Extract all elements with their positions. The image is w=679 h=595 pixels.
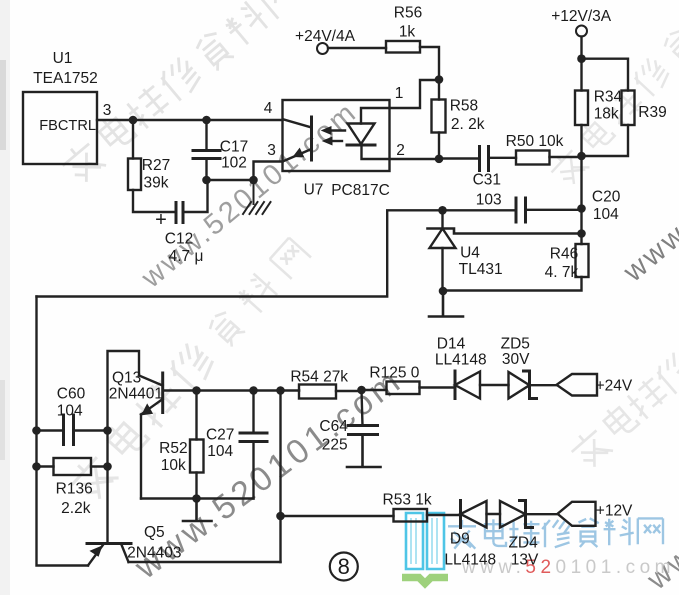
- svg-text:U7: U7: [304, 182, 324, 199]
- wire C20 line left: [443, 209, 517, 211]
- resistor R34: [575, 91, 588, 126]
- svg-text:2N4403: 2N4403: [127, 545, 181, 562]
- svg-text:PC817C: PC817C: [331, 182, 390, 199]
- resistor R56: [386, 41, 420, 53]
- capacitor C27: [240, 433, 267, 442]
- wire ZD4 to tag: [526, 513, 558, 515]
- wire C27 top: [252, 391, 254, 434]
- svg-text:8: 8: [338, 554, 350, 579]
- wire R27 top: [132, 120, 134, 159]
- svg-text:LL4148: LL4148: [444, 552, 496, 569]
- logo text 家电维修资料网: [448, 517, 663, 548]
- svg-text:3: 3: [267, 142, 276, 159]
- resistor R50: [516, 151, 550, 165]
- wire R52 bottom: [195, 473, 197, 499]
- node C17 bottom junction: [202, 176, 211, 185]
- svg-text:R56: R56: [394, 5, 422, 22]
- capacitor C64: [349, 426, 378, 435]
- node pin1 junction: [435, 75, 444, 84]
- node mid vertical top: [276, 386, 285, 395]
- wire ZD5 to tag: [530, 384, 557, 386]
- svg-text:FBCTRL: FBCTRL: [39, 118, 96, 134]
- wire +12V output row: [281, 515, 394, 517]
- resistor R54: [299, 385, 336, 399]
- svg-text:2: 2: [396, 142, 405, 159]
- resistor R52: [190, 440, 204, 473]
- wire C27 bottom: [252, 442, 254, 499]
- node R52 bottom: [192, 494, 201, 503]
- svg-text:D9: D9: [450, 531, 470, 548]
- wire R136 row left: [37, 465, 54, 467]
- wire D14 to ZD5: [480, 384, 509, 386]
- svg-text:18k: 18k: [594, 106, 619, 123]
- svg-text:TL431: TL431: [459, 261, 503, 278]
- node C17 top junction: [202, 116, 211, 125]
- node TL431 top junction: [438, 206, 447, 215]
- svg-text:2N4401: 2N4401: [109, 386, 163, 403]
- svg-text:104: 104: [207, 443, 233, 460]
- watermark www.520101.com center-left diagonal: [135, 96, 364, 295]
- svg-text:4.7 μ: 4.7 μ: [169, 248, 204, 265]
- svg-text:R52: R52: [159, 440, 187, 457]
- wire R53 to D9: [427, 514, 461, 516]
- capacitor C20: [516, 198, 526, 222]
- logo book icon: [402, 513, 448, 584]
- capacitor C60: [64, 415, 74, 445]
- svg-text:ZD4: ZD4: [508, 535, 538, 552]
- svg-text:TEA1752: TEA1752: [33, 70, 98, 87]
- svg-text:C27: C27: [206, 427, 234, 444]
- node +12V top junction: [577, 54, 586, 63]
- capacitor C12: [176, 203, 183, 223]
- node R50 rail junction: [577, 152, 586, 161]
- svg-text:39k: 39k: [144, 175, 169, 192]
- op-amp U1 TEA1752 box: [23, 92, 97, 164]
- node C60 left: [32, 426, 41, 435]
- svg-text:LL4148: LL4148: [435, 352, 487, 369]
- svg-text:C17: C17: [220, 139, 248, 156]
- node C20 rail junction: [577, 204, 586, 213]
- wire R52 top: [195, 391, 197, 440]
- resistor R46: [576, 244, 589, 277]
- wire left rail: [37, 297, 89, 566]
- svg-text:4. 7k: 4. 7k: [545, 264, 579, 281]
- diode D9 LL4148: [459, 501, 462, 528]
- watermark 家电维修资料网 upper-left diagonal: [57, 0, 303, 187]
- watermark www bottom-right edge: [617, 162, 679, 289]
- wire ground row R52 C27: [141, 497, 254, 499]
- svg-text:102: 102: [221, 155, 247, 172]
- terminal +24V tag: [557, 374, 598, 396]
- svg-text:C64: C64: [319, 418, 348, 435]
- diode ZD4 13V: [500, 501, 526, 528]
- wire +12V rail upper: [580, 37, 582, 91]
- wire node to R125: [362, 389, 387, 391]
- wire mid rail Q13 collector to Q5 base: [108, 351, 140, 544]
- wire R39 branch top: [582, 59, 629, 91]
- wire C60 row left: [37, 429, 64, 431]
- wire R125 to D14: [420, 386, 456, 388]
- ground R52: [183, 499, 212, 522]
- wire TL431 link to left rail: [37, 210, 443, 296]
- diode D14 LL4148: [454, 371, 457, 399]
- svg-text:Q13: Q13: [112, 370, 141, 387]
- wire C17 bottom: [205, 159, 207, 181]
- watermark 家电维修资料网 lower-left diagonal: [65, 234, 315, 505]
- ground C64: [347, 435, 381, 468]
- transistor Q13 2N4401: [139, 376, 163, 386]
- wire C17 top: [205, 120, 207, 151]
- svg-text:C12: C12: [165, 231, 193, 248]
- watermark www.520101.com bottom-center diagonal: [127, 361, 410, 587]
- capacitor C31: [480, 147, 489, 171]
- wire R56 to R58 rail: [420, 47, 439, 100]
- wire Q13 base row: [163, 389, 299, 391]
- wire C20 right: [526, 209, 582, 211]
- svg-text:D14: D14: [437, 336, 466, 353]
- node R136 right: [103, 462, 112, 471]
- wire C31 to R50: [489, 157, 517, 159]
- svg-text:R136: R136: [56, 481, 93, 498]
- svg-text:+24V/4A: +24V/4A: [295, 28, 356, 45]
- wire node up to U7 pin3: [254, 162, 283, 181]
- svg-text:C20: C20: [592, 189, 621, 206]
- transistor U4 TL431: [441, 210, 443, 228]
- svg-text:103: 103: [476, 192, 502, 209]
- node +12V row junction: [276, 512, 285, 521]
- diode ZD5 30V: [509, 372, 530, 399]
- svg-text:+24V: +24V: [596, 378, 633, 395]
- svg-text:10k: 10k: [161, 457, 186, 474]
- node TL431 bottom junction: [439, 287, 448, 296]
- wire U7 pin1: [361, 80, 439, 124]
- wire C60 right: [74, 429, 108, 431]
- node C27 top: [249, 386, 258, 395]
- wire R54 to node: [336, 390, 362, 392]
- wire Q13 emitter down: [140, 415, 142, 499]
- wire D9 to ZD4: [487, 513, 501, 515]
- svg-text:R54 27k: R54 27k: [290, 369, 348, 386]
- svg-text:U1: U1: [53, 50, 73, 67]
- svg-text:+12V: +12V: [596, 503, 633, 520]
- transistor Q5 2N4403: [87, 542, 131, 545]
- node pin2 junction: [435, 155, 444, 164]
- wire Q5 collector row: [129, 561, 281, 563]
- node C60 right: [103, 426, 112, 435]
- resistor R58: [432, 100, 446, 133]
- wire mid vertical to Q5 collector: [279, 391, 281, 563]
- transistor U7 phototransistor: [310, 117, 313, 160]
- node R46 top junction: [577, 229, 586, 238]
- resistor R53: [394, 509, 428, 522]
- watermark www corner bottom-right: [640, 505, 679, 595]
- wire R136 right: [91, 465, 108, 467]
- svg-text:Q5: Q5: [144, 524, 165, 541]
- svg-text:R53 1k: R53 1k: [383, 492, 432, 509]
- svg-text:30V: 30V: [502, 351, 530, 368]
- wire R46 bottom: [443, 277, 582, 291]
- node U1 pin3 R27 junction: [129, 116, 138, 125]
- svg-text:R34: R34: [594, 89, 623, 106]
- wire U7 pin2: [362, 145, 440, 159]
- node R52 top: [192, 386, 201, 395]
- resistor R39: [622, 91, 635, 126]
- node R136 left: [32, 462, 41, 471]
- node figure 8 circle: [330, 553, 358, 581]
- wire base row to R54: [298, 389, 300, 391]
- svg-text:R39: R39: [638, 104, 666, 121]
- light arrows: [329, 129, 345, 131]
- watermark 家电维修 bottom-right diagonal: [566, 350, 679, 472]
- svg-text:1k: 1k: [399, 24, 416, 41]
- wire +24V to R56: [328, 47, 386, 49]
- svg-text:R50 10k: R50 10k: [506, 133, 564, 150]
- svg-text:225: 225: [322, 437, 348, 454]
- svg-text:+: +: [155, 209, 167, 231]
- svg-text:U4: U4: [460, 245, 480, 262]
- svg-text:13V: 13V: [511, 552, 539, 569]
- node ground junction: [249, 176, 258, 185]
- svg-text:2.2k: 2.2k: [61, 500, 91, 517]
- svg-text:104: 104: [57, 403, 83, 420]
- wire node to C31: [439, 157, 480, 159]
- wire R58 bottom: [438, 133, 440, 159]
- svg-text:+12V/3A: +12V/3A: [551, 8, 612, 25]
- node R54 R125 C64 junction: [357, 386, 366, 395]
- terminal +12V/3A: [576, 26, 587, 37]
- svg-text:4: 4: [264, 100, 273, 117]
- wire pin3 U1 to U7: [97, 119, 283, 121]
- svg-text:R125 0: R125 0: [369, 365, 419, 382]
- resistor R27: [128, 159, 141, 191]
- terminal +24V/4A: [317, 43, 328, 54]
- wire R34 bottom rail: [580, 125, 582, 244]
- wire R50 to rail: [550, 156, 582, 158]
- svg-text:ZD5: ZD5: [501, 336, 530, 353]
- svg-text:2. 2k: 2. 2k: [451, 116, 485, 133]
- svg-text:1: 1: [395, 85, 404, 102]
- terminal +12V tag: [558, 502, 596, 526]
- resistor R136: [54, 458, 92, 475]
- wire C64 top: [362, 390, 363, 426]
- capacitor C17: [193, 151, 220, 159]
- wire R39 bottom: [582, 125, 629, 156]
- op-amp U7 PC817C box: [283, 100, 390, 171]
- wire R27 bottom to C12: [133, 190, 176, 212]
- svg-text:104: 104: [593, 206, 619, 223]
- svg-text:R46: R46: [550, 246, 578, 263]
- svg-text:C60: C60: [57, 386, 86, 403]
- ground hatch: [243, 180, 271, 214]
- wire node to ground node: [207, 179, 254, 181]
- svg-text:3: 3: [103, 102, 112, 119]
- diode U7 LED: [348, 124, 375, 145]
- resistor R125: [387, 382, 420, 395]
- svg-text:C31: C31: [473, 172, 501, 189]
- svg-text:R58: R58: [450, 98, 478, 115]
- ground TL431: [429, 291, 463, 317]
- svg-text:R27: R27: [142, 157, 170, 174]
- wire C12 right to node: [183, 180, 208, 212]
- watermark 家电维修资料网 top-right diagonal: [546, 27, 679, 189]
